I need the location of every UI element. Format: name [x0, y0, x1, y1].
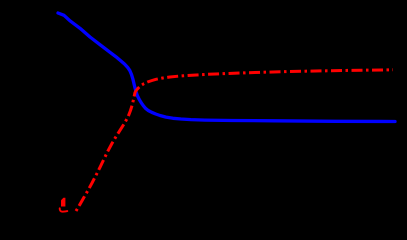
red dash-dot curve: [76, 70, 393, 211]
red glyph stem: [61, 198, 65, 207]
blue solid curve: [58, 13, 395, 122]
red glyph tail: [60, 208, 68, 211]
